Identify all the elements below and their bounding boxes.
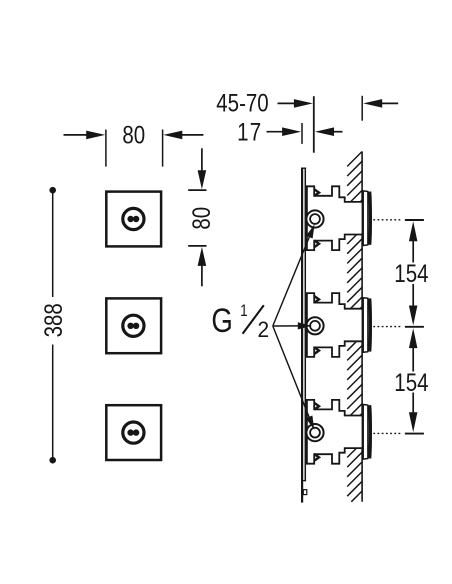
svg-text:154: 154	[394, 259, 428, 287]
svg-text:2: 2	[257, 318, 269, 343]
valve body 1 (side view)	[307, 186, 363, 250]
valve body 3 (side view)	[307, 400, 363, 464]
dim 80 right arrow tail	[181, 134, 203, 136]
plate front edge line	[301, 168, 303, 503]
leader arrowhead to inlet 1	[306, 224, 315, 238]
leader line to inlet 1	[273, 234, 311, 326]
escutcheon 1 plate outline	[363, 191, 368, 246]
valve 1 inlet outer circle	[306, 210, 323, 227]
valve 1 inlet inner circle	[310, 214, 320, 224]
escutcheon 1 convex face (thick)	[368, 192, 372, 245]
label fraction slash	[243, 305, 264, 334]
center dotted line 2	[373, 326, 400, 328]
front square 1	[106, 192, 161, 247]
dim 80 left arrowhead	[86, 131, 105, 140]
front handle circle 3	[123, 422, 144, 443]
wall hatching	[347, 152, 362, 502]
svg-text:388: 388	[39, 303, 67, 337]
dim 154b bottom arrowhead (down)	[409, 412, 418, 432]
center dotted line 3	[373, 432, 400, 434]
front handle circle 2	[123, 315, 144, 336]
valve 3 inlet outer circle	[306, 424, 323, 441]
dim 388 line upper	[52, 190, 54, 297]
escutcheon 3 plate outline	[363, 405, 368, 460]
dim 80v bottom tick	[188, 245, 206, 247]
escutcheon 2 plate outline	[363, 298, 368, 353]
svg-text:45-70: 45-70	[216, 89, 268, 117]
valve 3 inlet inner circle	[310, 428, 320, 438]
plate bottom tab	[303, 490, 307, 495]
dim 17 right arrowhead	[315, 127, 334, 136]
dim 17 left arrow tail	[267, 131, 284, 133]
front handle dots 1	[127, 216, 133, 222]
dim 80v top tick	[188, 189, 206, 191]
leader arrowhead to inlet 2	[298, 322, 312, 329]
svg-text:154: 154	[394, 368, 428, 396]
dim 154 tick 1	[405, 219, 424, 221]
dim 80v top arrowhead	[198, 170, 207, 189]
dim 154a bottom arrowhead (down)	[409, 306, 418, 326]
svg-text:80: 80	[187, 207, 215, 230]
dim 80 right arrowhead	[163, 131, 182, 140]
dim 80v bottom arrowhead	[198, 247, 207, 266]
valve 3 bottom mounting clip	[314, 454, 319, 461]
plate bottom cap	[303, 480, 306, 482]
valve 2 inlet inner circle	[310, 321, 320, 331]
svg-text:80: 80	[122, 121, 145, 149]
plate back edge line	[304, 168, 306, 482]
svg-text:17: 17	[237, 117, 262, 145]
valve 3 top mounting clip	[314, 403, 319, 410]
wall face line	[361, 152, 363, 502]
extension line wall face x=362.2	[361, 96, 363, 121]
front handle circle 1	[123, 208, 144, 229]
valve 2 inlet outer circle	[306, 317, 323, 334]
dim 388 bottom dot	[49, 457, 56, 464]
dim 154a top arrowhead (up)	[409, 221, 418, 241]
front handle dots 3	[127, 429, 133, 435]
dim 154a line lower	[412, 284, 414, 306]
dim 154 tick 3	[405, 433, 424, 435]
dim 80 left extension	[105, 130, 107, 167]
dim 154 tick 2	[405, 326, 424, 328]
dim 45-70 right arrow tail	[382, 102, 398, 104]
dim 154b line lower	[412, 393, 414, 413]
dim 45-70 left arrow tail	[278, 102, 295, 104]
valve 2 top mounting clip	[314, 296, 319, 303]
dim 154b line upper	[412, 348, 414, 372]
dim 154a line upper	[412, 241, 414, 263]
dim 17 left arrowhead	[282, 127, 301, 136]
extension line plate-front x=313.8	[313, 96, 315, 153]
valve body 2 (side view)	[307, 293, 363, 357]
valve 1 bottom mounting clip	[314, 241, 319, 248]
leader line to inlet 3	[273, 326, 310, 420]
dim 17 right arrow tail	[334, 131, 343, 133]
front square 3	[106, 405, 161, 460]
leader arrowhead to inlet 3	[306, 416, 315, 430]
dim 388 top dot	[49, 187, 56, 194]
svg-text:G: G	[211, 301, 232, 340]
dim 80 left arrow tail	[64, 134, 88, 136]
valve 2 bottom mounting clip	[314, 347, 319, 354]
svg-text:1: 1	[240, 302, 248, 321]
plate top cap	[301, 167, 306, 169]
dim 80v top arrow tail	[201, 148, 203, 171]
dim 154b top arrowhead (up)	[409, 328, 418, 348]
dim 45-70 left arrowhead	[294, 99, 313, 108]
front square 2	[106, 298, 161, 353]
dim 80v bottom arrow tail	[201, 266, 203, 287]
dim 388 line lower	[52, 345, 54, 461]
dim 45-70 right arrowhead	[363, 99, 382, 108]
dim 80 right extension	[162, 130, 164, 167]
leader line to inlet 2	[273, 325, 301, 327]
escutcheon 2 convex face (thick)	[368, 298, 372, 351]
center dotted line 1	[373, 219, 400, 221]
escutcheon 3 convex face (thick)	[368, 405, 372, 458]
extension line plate-back x=302	[301, 123, 303, 144]
front handle dots 2	[127, 323, 133, 329]
valve 1 top mounting clip	[314, 189, 319, 196]
